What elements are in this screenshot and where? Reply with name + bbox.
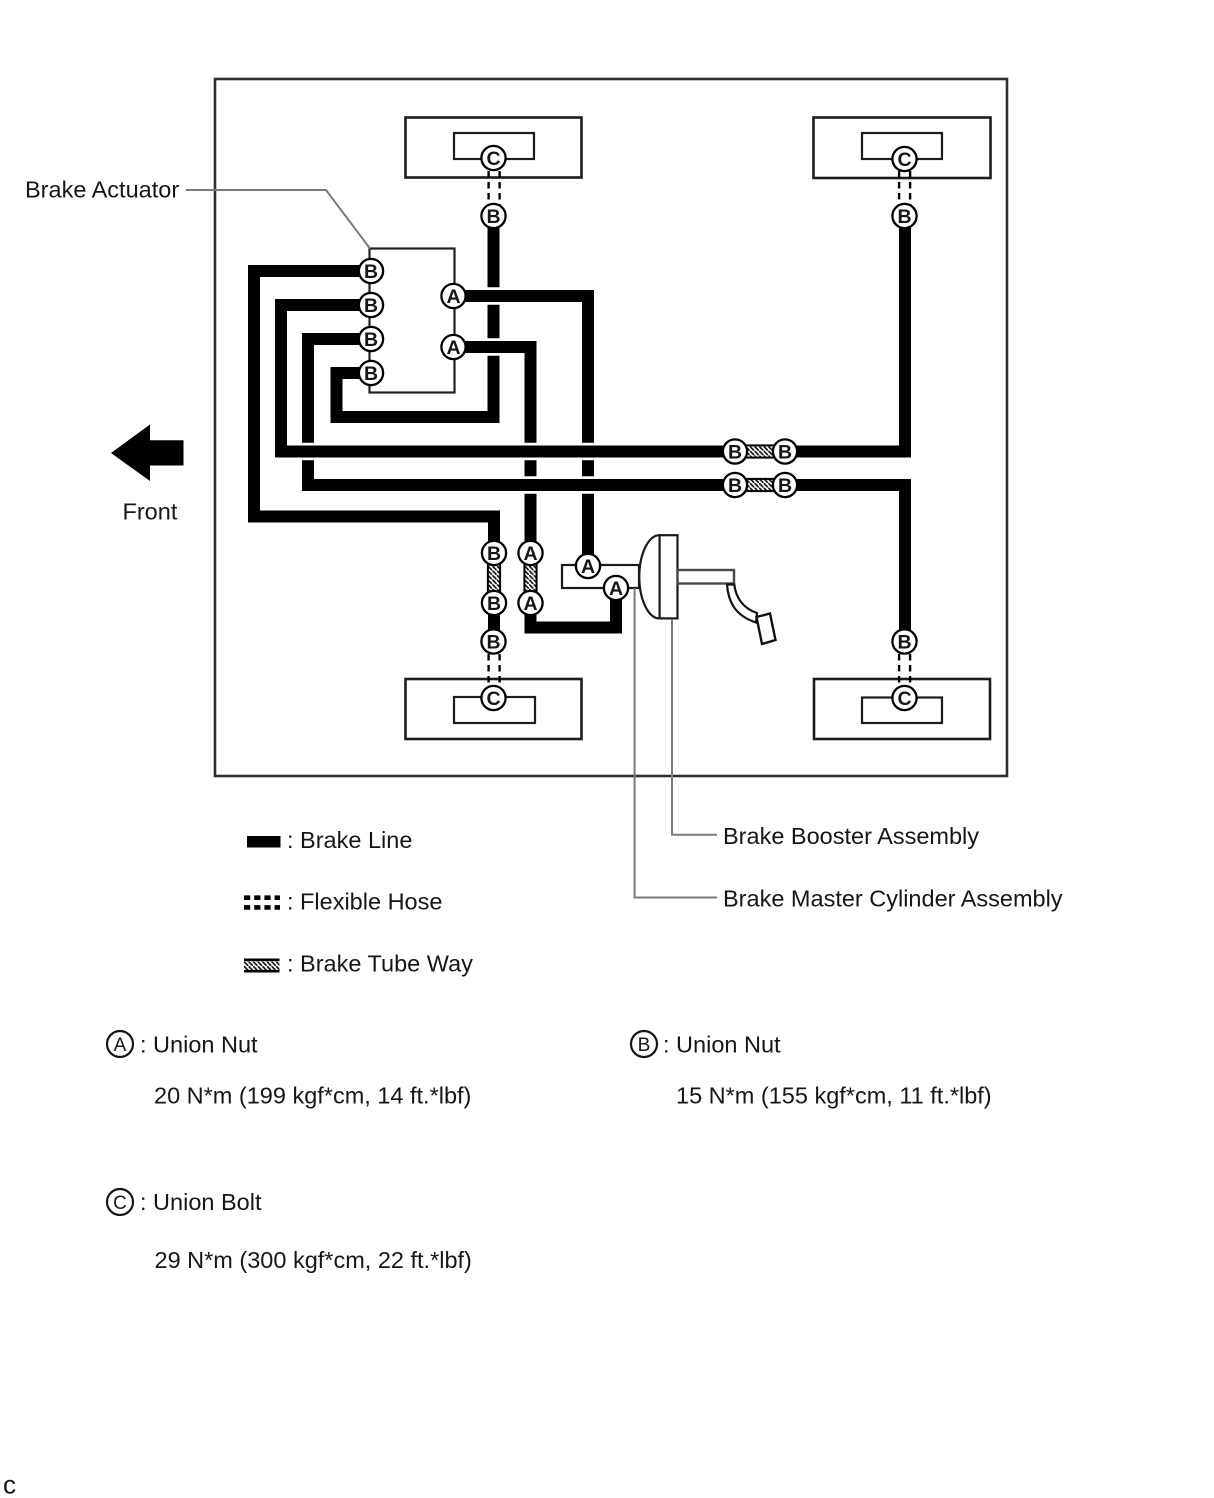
torque legend C [107, 1189, 133, 1215]
svg-text:A: A [114, 1035, 127, 1056]
flexible hose TR [898, 160, 900, 214]
vehicle outline frame [215, 79, 1007, 776]
brake line: actuator port B2 to rear-left... top-right wheel (haloed crossing) [281, 213, 905, 452]
svg-text:B: B [638, 1035, 651, 1056]
svg-text:A: A [446, 337, 460, 359]
svg-text:B: B [728, 475, 742, 497]
BL wheel union nut B [481, 629, 505, 653]
flexible hose BL [487, 643, 489, 696]
brake line: actuator port B3 to rear-right wheel (haloed crossing) [308, 339, 905, 645]
actuator union B3 [359, 327, 383, 351]
brake line: actuator port B1 to front-left tube way [254, 271, 494, 550]
svg-text:: Brake Line: : Brake Line [287, 827, 412, 853]
booster push rod [678, 570, 735, 584]
brake actuator body [370, 249, 455, 393]
TR wheel union nut B [892, 204, 916, 228]
flexible hose BR [898, 643, 900, 696]
svg-text:A: A [581, 556, 595, 578]
wheel brake BR outer box [814, 679, 990, 739]
rear tube way 1 union B left [723, 439, 747, 463]
wheel brake TR outer box [814, 118, 991, 179]
tube way B top [482, 541, 506, 565]
svg-text:A: A [523, 593, 537, 615]
svg-text:C: C [113, 1193, 127, 1214]
svg-text:B: B [897, 206, 911, 228]
wheel brake TR inner box [862, 133, 942, 159]
svg-text:C: C [486, 688, 500, 710]
svg-text:29 N*m (300 kgf*cm, 22 ft.*lbf: 29 N*m (300 kgf*cm, 22 ft.*lbf) [155, 1247, 472, 1273]
svg-text:Brake Actuator: Brake Actuator [25, 177, 179, 203]
svg-text:B: B [778, 442, 792, 464]
brake booster shell [639, 535, 659, 618]
wheel brake BR inner box [862, 698, 942, 724]
torque legend B [631, 1031, 657, 1057]
svg-text:: Union Bolt: : Union Bolt [140, 1189, 262, 1215]
svg-text:Front: Front [123, 498, 178, 524]
legend: brake tube way swatch [244, 961, 280, 971]
master cylinder union A bottom [604, 576, 628, 600]
leader line: brake actuator label [186, 190, 370, 249]
svg-text:B: B [778, 475, 792, 497]
svg-text:B: B [486, 632, 500, 654]
svg-text:A: A [523, 543, 537, 565]
BR wheel union nut B [892, 629, 916, 653]
curved arrow head [757, 614, 776, 645]
legend: brake line swatch [247, 836, 281, 848]
rear tube way 2 union B left [723, 473, 747, 497]
leader line: brake master cylinder assembly [635, 588, 717, 898]
brake tube way: rear line 1 [738, 445, 782, 457]
wheel brake BL inner box [454, 697, 535, 723]
svg-text:A: A [446, 286, 460, 308]
brake tube way: vertical A column [524, 556, 536, 600]
union circles with letters [359, 146, 917, 710]
svg-text:B: B [364, 295, 378, 317]
brake line: vertical from A1 corner down to master cylinder port A [582, 290, 594, 563]
svg-text:B: B [487, 543, 501, 565]
svg-text:: Union Nut: : Union Nut [663, 1032, 781, 1058]
svg-text:B: B [364, 363, 378, 385]
svg-text:C: C [486, 148, 500, 170]
svg-text:B: B [728, 442, 742, 464]
svg-text:: Brake Tube Way: : Brake Tube Way [287, 951, 473, 977]
master cylinder union A top [576, 554, 600, 578]
wheel brake TL outer box [406, 118, 582, 178]
svg-text:Brake Booster Assembly: Brake Booster Assembly [723, 823, 979, 849]
flexible hose TL [487, 160, 489, 214]
brake tube way: rear line 2 [738, 479, 782, 491]
svg-text:Brake Master Cylinder Assembly: Brake Master Cylinder Assembly [723, 886, 1063, 912]
brake line: actuator port A2 horizontal (over vertical) [454, 338, 522, 356]
rear tube way 2 union B right [773, 473, 797, 497]
actuator union B4 [359, 361, 383, 385]
brake line: vertical from actuator A2 corner to tube way A [525, 341, 537, 550]
svg-text:C: C [897, 688, 911, 710]
actuator union B2 [359, 293, 383, 317]
brake line: short segment above bottom-left flexible hose [488, 601, 500, 642]
tube way A top [518, 541, 542, 565]
svg-text:B: B [364, 261, 378, 283]
actuator union B1 [359, 259, 383, 283]
brake line: top-left wheel to actuator port B4 [337, 217, 494, 417]
actuator union A1 [441, 284, 465, 308]
svg-text:A: A [609, 578, 623, 600]
wheel brake BL outer box [406, 679, 582, 739]
BL wheel union bolt C [481, 686, 505, 710]
wheel brake TL inner box [454, 133, 534, 159]
tube way B bottom [482, 591, 506, 615]
torque legend A [107, 1031, 133, 1057]
curved arrow from push rod [727, 585, 757, 623]
TR wheel union bolt C [892, 147, 916, 171]
svg-text:B: B [487, 593, 501, 615]
TL wheel union nut B [481, 204, 505, 228]
svg-text:: Flexible Hose: : Flexible Hose [287, 889, 442, 915]
front direction arrow [111, 425, 184, 482]
svg-text:C: C [897, 149, 911, 171]
BR wheel union bolt C [892, 686, 916, 710]
brake master cylinder body [562, 565, 639, 588]
legend: flexible hose swatch [244, 895, 280, 900]
leader line: brake booster assembly [672, 619, 717, 835]
svg-text:: Union Nut: : Union Nut [140, 1032, 258, 1058]
svg-text:B: B [364, 329, 378, 351]
actuator union A2 [441, 335, 465, 359]
brake tube way: vertical B column [488, 556, 500, 600]
TL wheel union bolt C [481, 146, 505, 170]
brake line: tube way A bottom elbow to master cylinder port A2 [531, 584, 617, 628]
svg-text:20 N*m (199 kgf*cm, 14 ft.*lbf: 20 N*m (199 kgf*cm, 14 ft.*lbf) [154, 1083, 471, 1109]
svg-text:c: c [3, 1470, 16, 1498]
rear tube way 1 union B right [773, 439, 797, 463]
tube way A bottom [518, 591, 542, 615]
svg-text:B: B [897, 632, 911, 654]
svg-text:15 N*m (155 kgf*cm, 11 ft.*lbf: 15 N*m (155 kgf*cm, 11 ft.*lbf) [676, 1083, 992, 1109]
svg-text:B: B [486, 206, 500, 228]
brake line: actuator port A1 horizontal (over vertical) [454, 287, 579, 305]
